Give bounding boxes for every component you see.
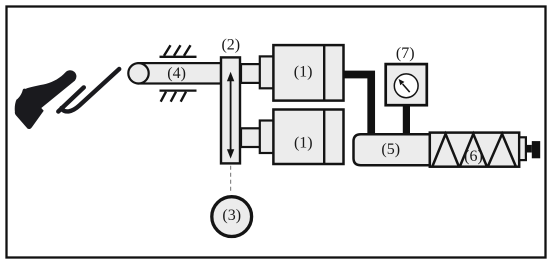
motor box (1) bottom divider: [323, 110, 325, 165]
svg-text:(7): (7): [396, 45, 415, 62]
gauge dial: [394, 74, 418, 98]
pedal lever arm: [62, 69, 120, 111]
screw triangle 3: [488, 134, 515, 166]
top coupling small block: [241, 64, 261, 83]
motor circle (3): [212, 197, 252, 237]
foot pedal boot: [15, 70, 77, 129]
bottom coupling large block: [260, 121, 274, 154]
svg-text:(5): (5): [381, 141, 400, 158]
svg-text:(4): (4): [167, 65, 186, 82]
svg-text:(1): (1): [294, 63, 313, 80]
bottom coupling small block: [241, 128, 261, 147]
rod end ball: [128, 63, 148, 83]
top support hatching: [164, 45, 191, 56]
arrow head down: [227, 149, 234, 158]
outlet stem: [526, 145, 532, 153]
motor box (1) top divider: [323, 45, 325, 101]
svg-text:(6): (6): [464, 148, 483, 165]
screw section (6): [430, 133, 519, 167]
gauge needle: [403, 84, 410, 92]
slider bar (2): [221, 57, 240, 163]
dashed link line: [230, 166, 232, 194]
gauge stem: [403, 105, 410, 134]
thick pipe from motor to cylinder: [344, 75, 372, 135]
top coupling large block: [260, 56, 274, 88]
pedal lever short link: [58, 87, 84, 111]
svg-text:(1): (1): [294, 135, 313, 152]
bottom support hatching: [161, 92, 186, 102]
arrow head up: [227, 72, 234, 81]
screw triangle 2: [460, 134, 487, 166]
bottom support line: [160, 89, 197, 91]
motor box (1) bottom: [273, 110, 343, 165]
svg-text:(2): (2): [221, 36, 240, 53]
svg-text:(3): (3): [222, 207, 241, 224]
screw triangle 1: [433, 134, 459, 166]
cylinder (5): [354, 134, 430, 165]
motor box (1) top: [273, 45, 343, 101]
outlet knob: [532, 141, 540, 158]
top support line: [160, 56, 197, 58]
gauge needle head: [399, 79, 405, 85]
gauge (7) box: [386, 64, 427, 105]
shaft rod (4): [139, 63, 222, 83]
outlet step block: [519, 137, 526, 160]
double arrow inside bar: [230, 79, 232, 151]
